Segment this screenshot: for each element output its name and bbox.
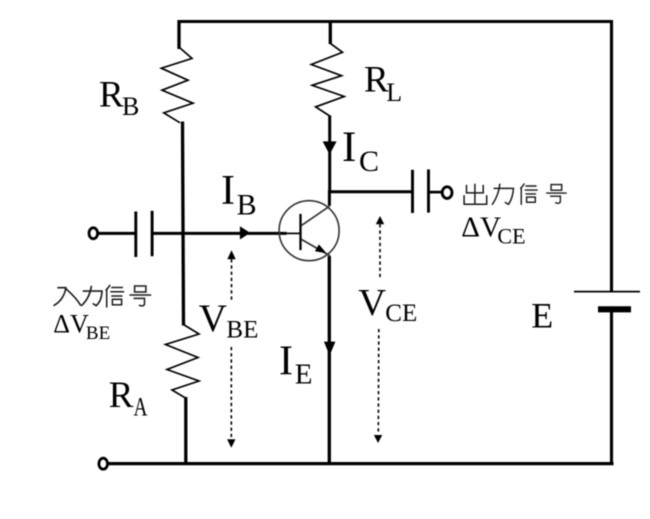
label input signal kanji 入 [54,288,80,306]
label output signal kanji 信 [521,184,537,204]
wire input lead [98,232,136,235]
svg-text:V: V [199,297,227,340]
label output signal kanji 号 [547,185,566,204]
svg-text:CE: CE [385,300,417,327]
wire RA bottom lead [184,397,187,464]
battery E [574,292,640,310]
svg-text:CE: CE [497,223,525,248]
label input signal kanji 力 [82,286,102,305]
wire emitter vertical [328,256,331,464]
svg-text:BE: BE [86,323,110,344]
wire output lead [429,191,443,194]
capacitor input [136,211,152,257]
wire RL top lead [329,20,332,44]
svg-text:I: I [221,168,235,214]
svg-text:R: R [109,375,134,416]
svg-text:R: R [364,60,389,101]
label output signal kanji 力 [492,184,513,204]
resistor RL [311,43,344,117]
transistor Q1 [279,201,339,261]
resistor RA [166,325,200,399]
wire collector stub [328,190,331,206]
svg-text:L: L [386,78,402,107]
terminal input [89,228,98,239]
svg-text:I: I [342,124,356,171]
wire bottom rail [108,462,614,465]
terminal output [442,187,452,199]
svg-text:R: R [99,75,124,116]
svg-text:A: A [134,393,148,422]
capacitor output [413,169,429,213]
arrow IB current [240,226,250,239]
arrow IC current [323,141,337,154]
wire top rail [178,20,613,23]
wire left branch middle [183,122,184,326]
svg-text:ΔV: ΔV [461,211,501,243]
wire right rail upper [610,20,613,292]
svg-text:C: C [359,145,379,178]
arrow VBE dashed [227,250,236,448]
svg-text:ΔV: ΔV [53,309,89,338]
node collector junction wire [329,190,412,193]
svg-text:V: V [358,282,386,324]
terminal ground left [99,458,108,469]
svg-text:B: B [122,92,139,121]
arrow VCE dashed [374,216,384,443]
arrow IE current [324,342,336,356]
svg-text:BE: BE [226,317,258,344]
svg-text:E: E [531,296,553,336]
label input signal kanji 信 [106,285,124,307]
svg-text:B: B [237,188,257,221]
label output signal kanji 出 [464,184,487,204]
svg-text:E: E [295,359,313,391]
resistor RB [161,48,193,123]
wire base [152,232,286,235]
wire right rail lower [610,310,613,464]
wire RB top lead [177,20,180,49]
label input signal kanji 号 [130,286,151,306]
svg-text:I: I [279,339,293,385]
wire RL bottom lead [328,116,331,193]
